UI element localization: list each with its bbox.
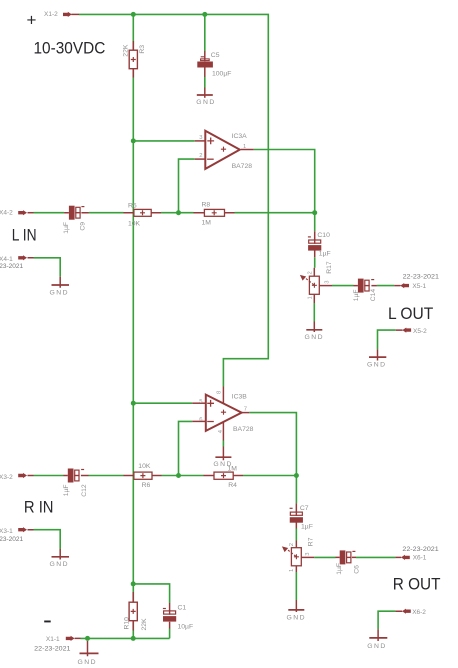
- svg-text:7: 7: [244, 407, 247, 413]
- wire X3-1 to GND: [34, 530, 61, 549]
- wire X4-2 stub: [28, 212, 34, 214]
- wire bias rail vertical: [132, 14, 134, 638]
- svg-text:22-23-2021: 22-23-2021: [402, 546, 439, 553]
- wire IC3B pin5: [133, 402, 192, 404]
- wire IC3B pin7 lead: [242, 412, 250, 414]
- svg-text:X4-2: X4-2: [0, 210, 13, 217]
- svg-text:X3-1: X3-1: [0, 528, 13, 535]
- wire C12 leads: [64, 475, 89, 477]
- svg-text:22-23-2021: 22-23-2021: [403, 274, 440, 281]
- svg-text:1: 1: [289, 569, 295, 572]
- capacitor C10: [308, 237, 321, 251]
- svg-text:22K: 22K: [123, 44, 130, 57]
- svg-text:2: 2: [307, 271, 313, 274]
- capacitor C14: [358, 279, 374, 293]
- wire R5 leads: [124, 212, 162, 214]
- svg-text:1µF: 1µF: [63, 222, 70, 234]
- svg-text:100µF: 100µF: [212, 71, 231, 78]
- wire IC3B output to C7: [249, 413, 296, 504]
- wire C5 top stub: [204, 14, 206, 51]
- svg-text:10-30VDC: 10-30VDC: [34, 39, 106, 58]
- wire R10 leads: [132, 592, 134, 631]
- svg-text:GND: GND: [50, 290, 69, 297]
- ground at X4-1: [50, 285, 70, 297]
- svg-text:L OUT: L OUT: [388, 304, 433, 323]
- svg-text:1µF: 1µF: [301, 524, 313, 531]
- wire IC3A output: [254, 150, 315, 232]
- wire C5 leads: [204, 51, 206, 77]
- wire C7 leads: [295, 503, 297, 528]
- wire X6-1 stub: [395, 556, 401, 558]
- svg-text:10K: 10K: [128, 221, 141, 228]
- wire X1-1 stub and GND pin: [75, 638, 88, 656]
- svg-text:R5: R5: [128, 203, 137, 210]
- wire C6 leads: [336, 556, 357, 558]
- svg-text:GND: GND: [287, 614, 306, 621]
- ground at IC3B pin4: [213, 457, 232, 468]
- capacitor C1: [163, 609, 176, 622]
- resistor R8: [204, 209, 224, 216]
- wire R7 pin2 lead: [295, 541, 297, 548]
- capacitor C7: [290, 508, 303, 522]
- svg-text:1: 1: [243, 144, 246, 150]
- wire C14 to X5-1: [377, 285, 394, 287]
- svg-text:R17: R17: [326, 261, 333, 274]
- wire X5-2 to GND: [378, 330, 396, 349]
- svg-text:R8: R8: [202, 202, 211, 209]
- label - (minus): [44, 621, 51, 623]
- node V+/R3 junction: [131, 12, 136, 17]
- node bias/R10 top junction: [131, 581, 136, 586]
- wire R17 pin1 to GND: [313, 303, 315, 322]
- node IC3A out junction: [312, 210, 317, 215]
- svg-text:X5-2: X5-2: [413, 328, 427, 335]
- svg-text:X6-2: X6-2: [412, 609, 426, 616]
- svg-text:1M: 1M: [202, 219, 212, 226]
- svg-text:X6-1: X6-1: [413, 555, 427, 562]
- resistor R3: [129, 50, 137, 68]
- svg-text:1µF: 1µF: [353, 289, 360, 301]
- resistor R10: [129, 602, 137, 621]
- svg-text:GND: GND: [78, 659, 97, 666]
- wire R8 leads: [194, 212, 235, 214]
- op-amp IC3B: [206, 395, 242, 431]
- svg-text:C7: C7: [300, 505, 309, 512]
- svg-text:2: 2: [289, 543, 295, 546]
- wire R6 to R4: [162, 475, 204, 477]
- capacitor C12: [68, 469, 84, 483]
- wire IC3A pin2 lead: [195, 158, 206, 160]
- pad X6-1: [401, 555, 410, 560]
- svg-text:R10: R10: [124, 617, 131, 630]
- svg-text:X1-1: X1-1: [46, 636, 60, 643]
- svg-text:IC3B: IC3B: [232, 394, 248, 401]
- wire IC3B pin5 lead: [192, 402, 206, 404]
- wire C10 leads: [314, 231, 316, 257]
- svg-text:R6: R6: [142, 482, 151, 489]
- svg-text:X3-2: X3-2: [0, 474, 13, 481]
- wire C12 to R6: [89, 475, 124, 477]
- wire C9 to R5: [89, 212, 124, 214]
- pad X6-2: [402, 609, 411, 614]
- svg-text:C6: C6: [353, 565, 360, 574]
- node R5/R8 feedback junction: [176, 210, 181, 215]
- op-amp IC3A: [205, 131, 240, 169]
- wire X4-2 to C9: [34, 212, 65, 214]
- potentiometer R17: [300, 275, 319, 294]
- node bias/IC3B pin5 junction: [131, 401, 136, 406]
- wire X6-2 to GND: [378, 611, 395, 629]
- wire R17 pin1 lead: [313, 294, 315, 332]
- pad X3-2: [18, 473, 27, 478]
- wire C1 leads: [169, 603, 171, 629]
- svg-text:X5-1: X5-1: [412, 283, 426, 290]
- svg-text:1: 1: [308, 296, 314, 299]
- wire R5 to R8: [161, 212, 194, 214]
- svg-text:2-23-2021: 2-23-2021: [0, 263, 24, 270]
- capacitor C5: [197, 57, 213, 68]
- wire R8 to output column: [235, 212, 315, 214]
- svg-text:GND: GND: [305, 334, 324, 341]
- potentiometer R7: [282, 546, 301, 565]
- svg-text:IC3A: IC3A: [232, 133, 248, 140]
- wire R7 pin3 lead: [301, 556, 314, 558]
- pad X1-2: [63, 12, 72, 17]
- wire R17 pin3 lead: [319, 285, 332, 287]
- resistor R5: [134, 209, 151, 216]
- svg-text:C10: C10: [317, 232, 330, 239]
- wire bias node to C1 top: [133, 584, 169, 603]
- svg-text:R7: R7: [307, 537, 314, 546]
- ground at R17: [305, 330, 324, 341]
- svg-text:C5: C5: [211, 52, 220, 59]
- ground at X1-1: [78, 653, 99, 666]
- pad X3-1: [18, 527, 27, 532]
- svg-text:C9: C9: [79, 222, 86, 231]
- wire R4 to output column: [243, 475, 296, 477]
- svg-text:X4-1: X4-1: [0, 256, 13, 263]
- pad X5-1: [400, 283, 409, 288]
- wire IC3A pin1 lead: [241, 149, 254, 151]
- node bias/IC3A pin3 junction: [131, 138, 136, 143]
- wire X5-2 stub and GND pin: [378, 330, 403, 360]
- wire R17 pin2 lead: [313, 268, 315, 276]
- svg-text:22K: 22K: [141, 618, 148, 631]
- wire C5 GND pin: [204, 88, 206, 98]
- ground at C5: [196, 95, 215, 106]
- wire IC3A pin3 lead: [195, 140, 206, 142]
- node IC3B out junction: [294, 473, 299, 478]
- wire X1-2 stub: [71, 13, 79, 15]
- resistor R6: [134, 472, 152, 479]
- ground at R7: [287, 610, 306, 621]
- wire V+ top rail to IC3B pin8: [79, 14, 268, 386]
- node V-/GND junction: [85, 636, 90, 641]
- resistor R4: [214, 472, 233, 479]
- svg-text:GND: GND: [50, 561, 69, 568]
- wire R6 leads: [124, 475, 162, 477]
- svg-text:GND: GND: [367, 643, 386, 650]
- wire V- bottom rail: [81, 637, 170, 639]
- wire R4 leads: [204, 475, 244, 477]
- pad X4-1: [18, 255, 27, 260]
- wire R7 pin1 to GND: [295, 572, 297, 600]
- svg-text:GND: GND: [196, 99, 215, 106]
- capacitor C6: [340, 550, 356, 564]
- node R6/R4 feedback junction: [176, 473, 181, 478]
- svg-text:10µF: 10µF: [178, 623, 194, 630]
- wire X3-2 to C12: [34, 475, 64, 477]
- svg-text:C12: C12: [81, 484, 88, 497]
- wire R17 pin3 to C14: [332, 285, 354, 287]
- svg-text:L IN: L IN: [12, 226, 37, 245]
- wire IC3B pin4 to GND: [222, 441, 224, 447]
- svg-text:1µF: 1µF: [336, 563, 343, 575]
- wire IC3B pin8 lead: [222, 387, 224, 405]
- ground at X6-2: [367, 638, 387, 650]
- svg-text:X1-2: X1-2: [44, 11, 58, 18]
- node V-/R10 bottom junction: [131, 636, 136, 641]
- wire C9 leads: [64, 212, 89, 214]
- svg-text:BA728: BA728: [232, 163, 253, 170]
- wire IC3A pin3: [133, 140, 195, 142]
- pad X5-2: [402, 328, 411, 333]
- svg-text:+: +: [27, 11, 37, 30]
- wire C14 leads: [354, 285, 377, 287]
- wire IC3A pin2 to feedback node: [179, 159, 195, 213]
- wire X6-2 stub and GND pin: [378, 611, 402, 641]
- node V+/C5 junction: [202, 12, 207, 17]
- capacitor C9: [69, 206, 85, 220]
- svg-text:R IN: R IN: [24, 497, 54, 516]
- pad X4-2: [18, 210, 27, 215]
- pad X1-1: [66, 636, 75, 641]
- svg-text:2-23-2021: 2-23-2021: [0, 536, 24, 543]
- wire X3-2 stub: [28, 475, 34, 477]
- wire IC3B pin6 to feedback node: [179, 421, 193, 475]
- wire IC3B pin4 lead: [222, 422, 224, 460]
- svg-text:R OUT: R OUT: [393, 575, 441, 594]
- svg-text:1µF: 1µF: [319, 250, 331, 257]
- ground at X3-1: [50, 557, 70, 568]
- ground at X5-2: [367, 357, 386, 368]
- wire R7 pin3 to C6: [314, 556, 335, 558]
- wire C7 to R7: [295, 529, 297, 541]
- svg-text:22-23-2021: 22-23-2021: [34, 646, 71, 653]
- svg-text:BA728: BA728: [233, 426, 254, 433]
- svg-text:10K: 10K: [138, 463, 151, 470]
- svg-text:1M: 1M: [228, 466, 238, 473]
- wire X5-1 stub: [394, 285, 400, 287]
- wire C5 to GND: [204, 77, 206, 88]
- wire X4-1 stub and GND pin: [28, 258, 61, 288]
- wire C10 to R17: [314, 257, 316, 268]
- svg-text:C14: C14: [370, 289, 377, 302]
- svg-text:1µF: 1µF: [63, 484, 70, 496]
- svg-text:C1: C1: [178, 605, 187, 612]
- wire R3 leads: [132, 41, 134, 78]
- wire X4-1 to GND: [34, 258, 61, 277]
- svg-text:R3: R3: [139, 45, 146, 54]
- svg-text:GND: GND: [367, 361, 386, 368]
- wire C1 bottom to V- rail: [169, 629, 171, 639]
- svg-text:2: 2: [199, 153, 202, 159]
- svg-text:R4: R4: [228, 482, 237, 489]
- wire C6 to X6-1: [356, 556, 395, 558]
- wire IC3B pin6 lead: [192, 420, 206, 422]
- wire R7 pin1 lead: [295, 566, 297, 612]
- wire X3-1 stub and GND pin: [28, 530, 61, 560]
